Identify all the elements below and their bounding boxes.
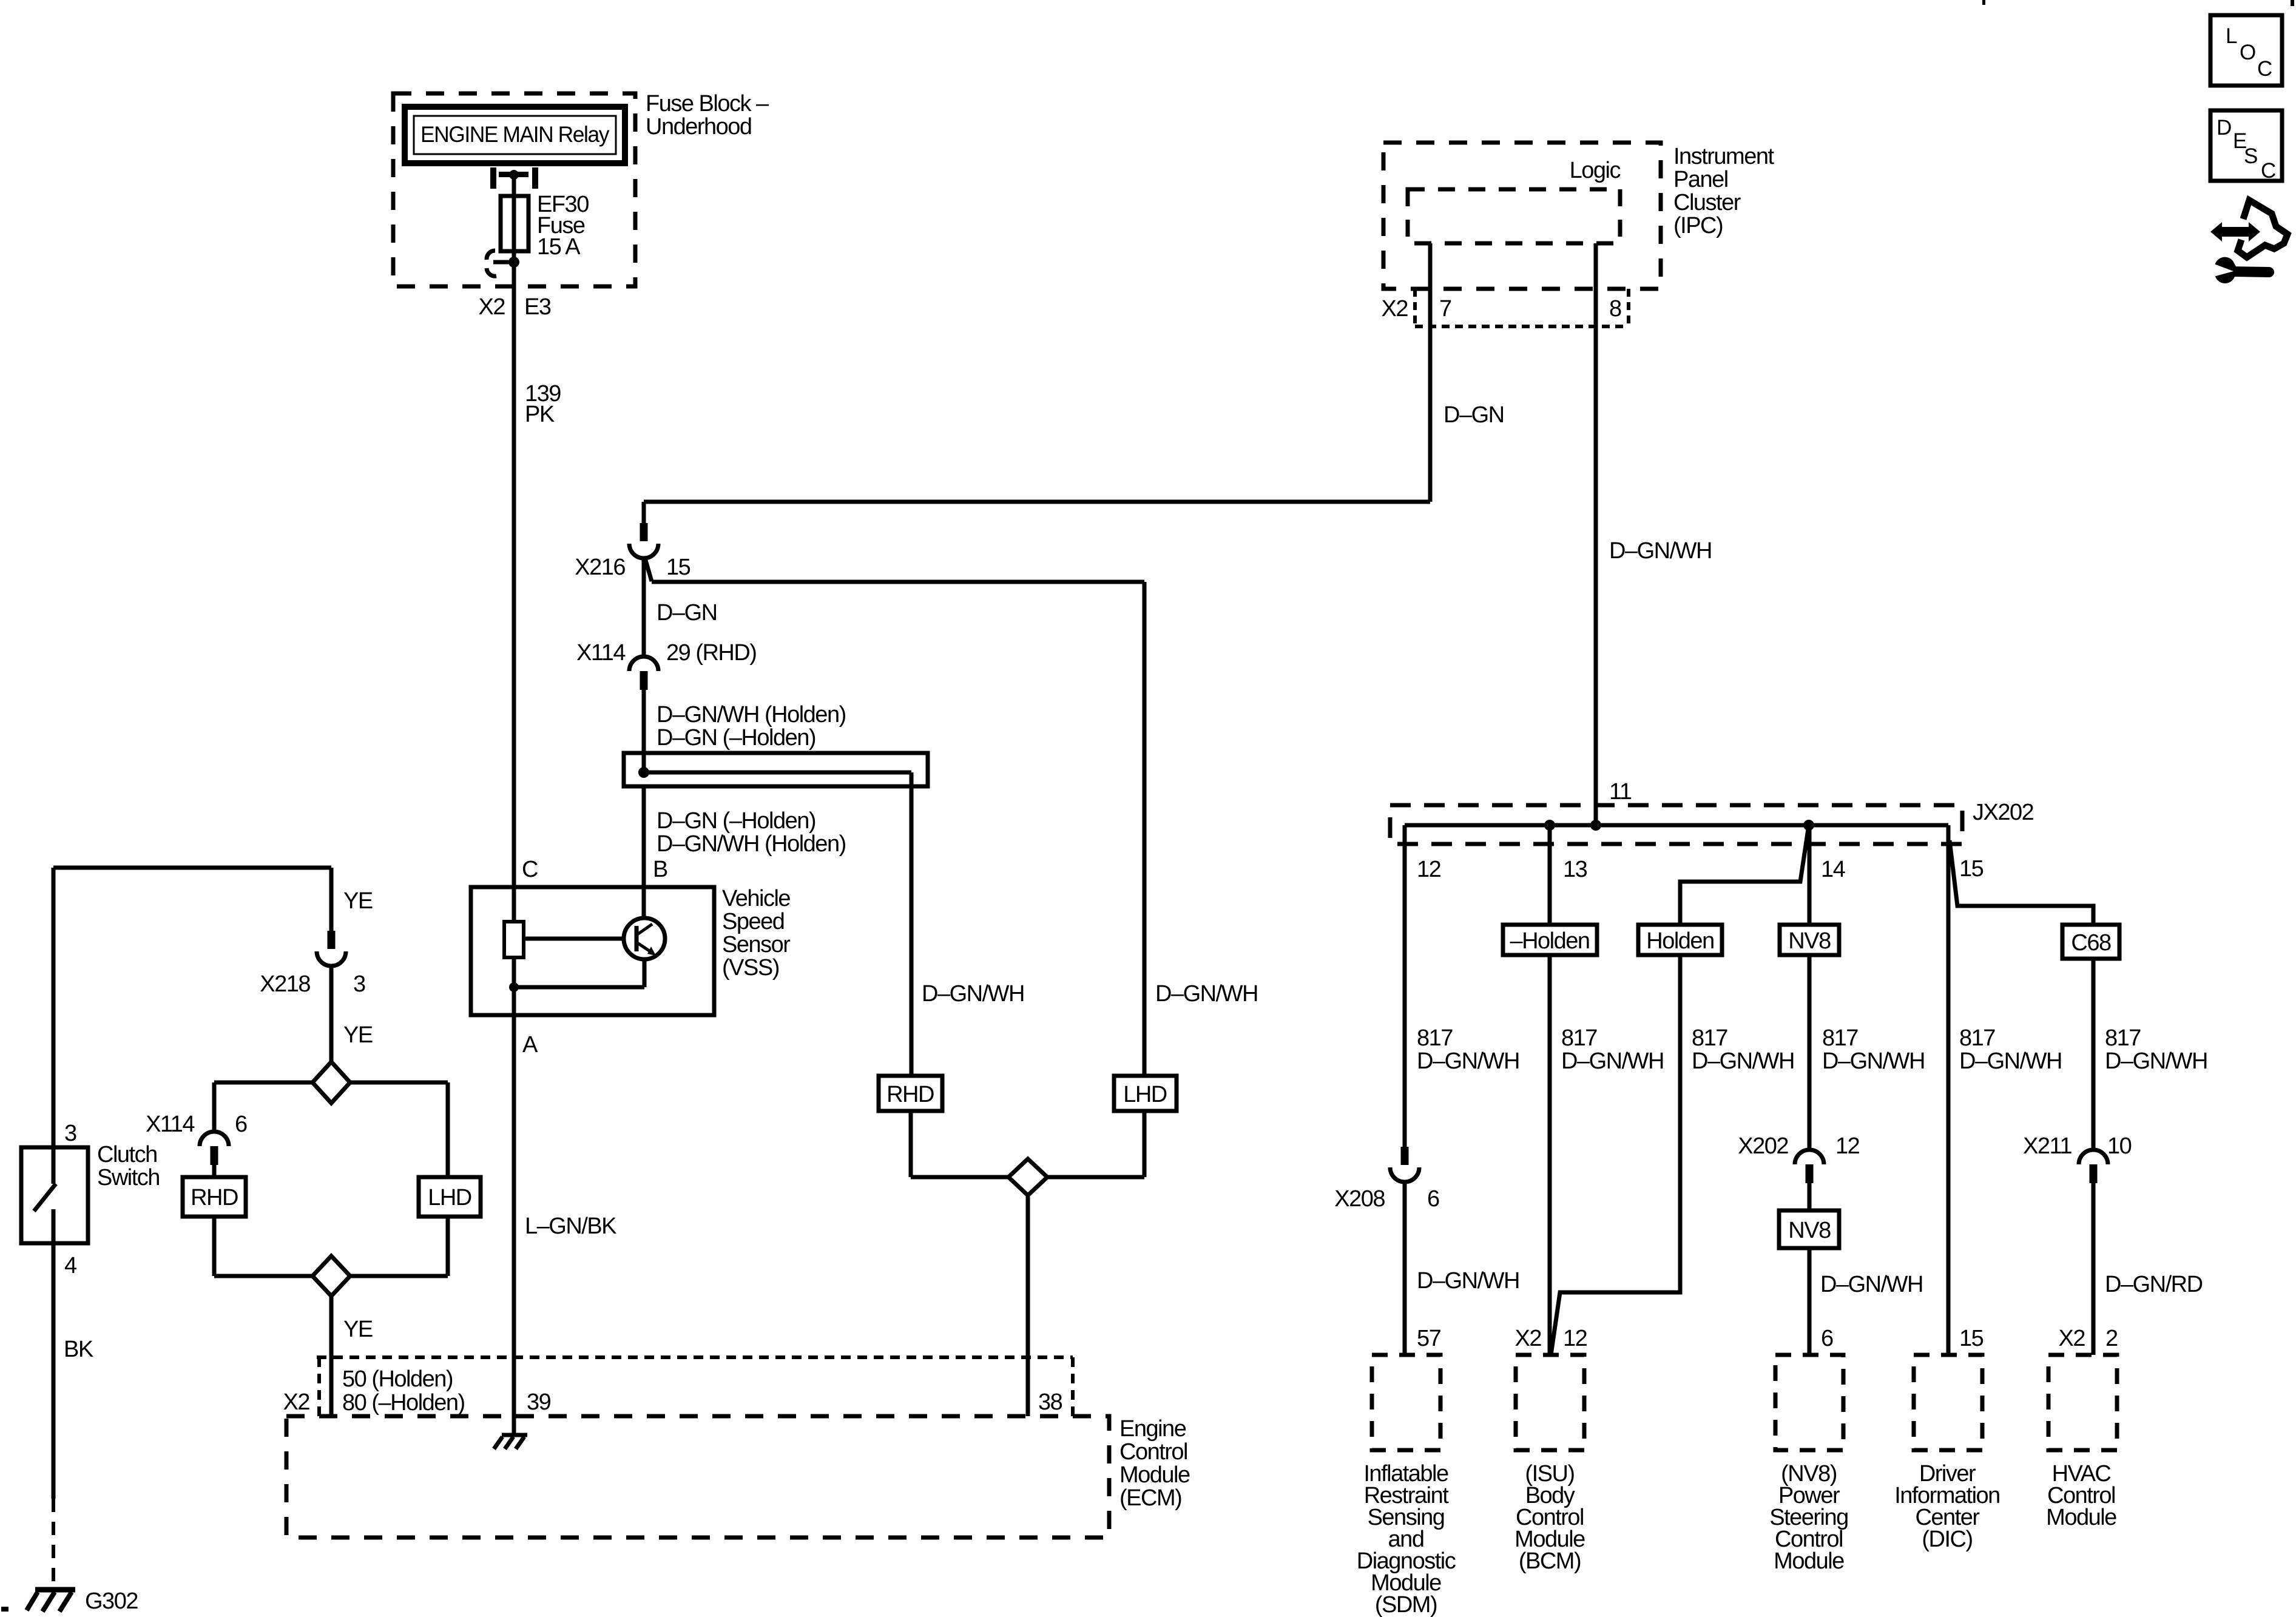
svg-text:7: 7 xyxy=(1439,296,1451,322)
svg-text:C68: C68 xyxy=(2071,930,2111,956)
svg-text:D–GN/WH: D–GN/WH xyxy=(1822,1048,1925,1074)
svg-text:Engine: Engine xyxy=(1119,1416,1186,1442)
ECM internal ground xyxy=(494,1435,527,1449)
svg-text:X2: X2 xyxy=(1382,296,1408,322)
svg-text:(BCM): (BCM) xyxy=(1519,1548,1581,1574)
wire X216 branch to LHD run xyxy=(645,558,652,581)
IPC logic dashed box xyxy=(1408,189,1620,243)
svg-text:Vehicle: Vehicle xyxy=(722,886,790,911)
svg-text:39: 39 xyxy=(527,1389,551,1415)
box LHD clutch xyxy=(419,1177,481,1217)
splice pack box xyxy=(624,753,928,786)
svg-text:12: 12 xyxy=(1835,1133,1860,1159)
svg-text:Instrument: Instrument xyxy=(1673,144,1774,169)
fuse block - underhood dashed box xyxy=(393,93,635,286)
svg-text:Speed: Speed xyxy=(722,909,784,934)
wire IPC pin 7 D-GN xyxy=(1430,243,1504,502)
svg-text:D–GN/WH: D–GN/WH xyxy=(1692,1048,1794,1074)
svg-text:D–GN: D–GN xyxy=(657,600,717,626)
svg-text:D–GN/WH: D–GN/WH xyxy=(1609,538,1712,564)
page artifact dot xyxy=(1,1607,8,1612)
svg-text:X2: X2 xyxy=(2059,1326,2085,1351)
resistor in VSS xyxy=(504,887,524,1015)
svg-text:X114: X114 xyxy=(146,1112,195,1137)
wire clutch to ground BK xyxy=(53,1243,93,1499)
node JX202 14 xyxy=(1803,820,1814,831)
svg-text:G302: G302 xyxy=(85,1588,138,1614)
svg-text:B: B xyxy=(653,857,667,882)
wire stub to X216 xyxy=(642,502,646,523)
wire JX202-14 to Holden xyxy=(1680,825,1809,925)
page artifact tick top1 xyxy=(1982,0,1985,5)
wire D-GN/WH to RHD xyxy=(922,981,1024,1007)
connector X211 pin 10 xyxy=(2023,1133,2132,1183)
connector X114 pin 29 xyxy=(576,640,756,690)
label YE upper xyxy=(343,888,373,914)
label 6 PSCM xyxy=(1821,1326,1833,1351)
svg-text:X218: X218 xyxy=(260,971,310,997)
wire X208 to SDM xyxy=(1405,1182,1519,1355)
svg-text:12: 12 xyxy=(1563,1326,1587,1351)
box NV8 upper xyxy=(1780,925,1839,955)
wire clutch top run YE xyxy=(53,868,331,1147)
svg-text:817: 817 xyxy=(1417,1025,1453,1051)
IPC connector labels X2 7 8 xyxy=(1382,296,1621,322)
label Vehicle Speed Sensor VSS xyxy=(722,886,791,981)
wire NV8 to PSCM xyxy=(1809,1248,1923,1355)
node JX202 11 xyxy=(1590,820,1601,831)
svg-text:12: 12 xyxy=(1417,857,1441,882)
svg-text:D–GN/WH: D–GN/WH xyxy=(922,981,1024,1007)
svg-text:Holden: Holden xyxy=(1646,928,1714,954)
svg-text:Switch: Switch xyxy=(97,1165,160,1190)
wire emitter to A xyxy=(514,959,644,987)
svg-text:Panel: Panel xyxy=(1673,167,1728,192)
label 817 D-GN/WH col1 xyxy=(1417,1025,1519,1074)
svg-text:D–GN/WH (Holden): D–GN/WH (Holden) xyxy=(657,831,846,857)
box -Holden xyxy=(1503,925,1597,955)
wire diamond to X114 branch xyxy=(214,1082,312,1132)
svg-text:(IPC): (IPC) xyxy=(1673,213,1723,238)
svg-text:817: 817 xyxy=(2105,1025,2141,1051)
JX202 bus xyxy=(1405,823,1948,828)
svg-text:80 (–Holden): 80 (–Holden) xyxy=(342,1390,465,1416)
ECM pin 39 label xyxy=(527,1389,551,1415)
svg-text:C: C xyxy=(2257,57,2272,81)
svg-text:3: 3 xyxy=(353,971,365,997)
label 3 clutch xyxy=(64,1121,76,1146)
wire RHD2 to lower diamond xyxy=(214,1217,312,1276)
svg-text:(SDM): (SDM) xyxy=(1375,1592,1437,1617)
svg-text:D–GN/WH: D–GN/WH xyxy=(1561,1048,1664,1074)
svg-text:L: L xyxy=(2226,24,2237,48)
svg-text:2: 2 xyxy=(2105,1326,2118,1351)
label DIC xyxy=(1894,1461,2000,1552)
engine control module ECM dashed box xyxy=(286,1416,1109,1538)
svg-text:YE: YE xyxy=(343,1317,373,1342)
connector X208 pin 6 xyxy=(1334,1147,1439,1212)
label 817 D-GN/WH col5 xyxy=(1959,1025,2062,1074)
svg-text:Module: Module xyxy=(2046,1505,2116,1530)
label HVAC xyxy=(2046,1461,2116,1530)
label Logic xyxy=(1570,158,1621,183)
wire splice to VSS B xyxy=(642,786,646,887)
svg-text:817: 817 xyxy=(1822,1025,1858,1051)
label SDM xyxy=(1357,1461,1456,1617)
label 817 D-GN/WH col4 xyxy=(1822,1025,1925,1074)
wire X218 to diamond YE xyxy=(331,966,373,1062)
label Fuse Block - Underhood xyxy=(646,91,769,140)
svg-text:L–GN/BK: L–GN/BK xyxy=(525,1214,616,1239)
icon wrench xyxy=(2213,257,2274,283)
svg-text:Module: Module xyxy=(1119,1462,1190,1488)
label Clutch Switch xyxy=(97,1142,160,1190)
wire LHD2 to lower diamond xyxy=(351,1217,448,1276)
wire -Holden to BCM xyxy=(1548,955,1552,1355)
label 817 D-GN/WH col3 xyxy=(1692,1025,1794,1074)
wire resistor to transistor xyxy=(524,937,624,941)
ECM pin 38 label xyxy=(1038,1389,1062,1415)
svg-text:C: C xyxy=(522,857,538,882)
svg-text:D: D xyxy=(2217,116,2231,140)
svg-text:D–GN/WH: D–GN/WH xyxy=(1959,1048,2062,1074)
svg-text:JX202: JX202 xyxy=(1973,800,2034,825)
label 817 D-GN/WH col6 xyxy=(2105,1025,2207,1074)
svg-text:S: S xyxy=(2244,144,2257,168)
icon LOC xyxy=(2210,15,2282,86)
connector X216 pin 15 xyxy=(575,523,690,580)
svg-text:D–GN/RD: D–GN/RD xyxy=(2105,1272,2203,1297)
HVAC dashed box xyxy=(2048,1355,2117,1450)
svg-text:D–GN/WH: D–GN/WH xyxy=(1820,1272,1923,1297)
svg-text:15: 15 xyxy=(1959,856,1984,882)
svg-text:D–GN (–Holden): D–GN (–Holden) xyxy=(657,808,815,834)
svg-text:BK: BK xyxy=(64,1337,93,1362)
svg-text:RHD: RHD xyxy=(191,1185,238,1210)
wire LHD branch down xyxy=(1144,582,1258,1076)
box Holden xyxy=(1638,925,1722,955)
label D-GN (-Holden) D-GN/WH (Holden) xyxy=(657,808,846,857)
wire JX202-13 to -Holden xyxy=(1548,825,1552,925)
wire C68 to X211 xyxy=(2092,959,2096,1150)
fuse EF30 15 A xyxy=(501,192,589,262)
svg-text:D–GN/WH: D–GN/WH xyxy=(1155,981,1258,1007)
wire X114 to splice xyxy=(642,690,646,772)
vehicle speed sensor VSS box xyxy=(471,887,714,1015)
connector X218 pin 3 xyxy=(260,931,365,997)
node VSS A junction xyxy=(509,982,519,992)
wire JX202-15 branch to C68 xyxy=(1950,840,2093,925)
svg-text:LHD: LHD xyxy=(1123,1082,1167,1107)
svg-text:Clutch: Clutch xyxy=(97,1142,157,1167)
PSCM dashed box xyxy=(1775,1355,1843,1450)
wire diamond to ECM 50/80 YE xyxy=(331,1296,373,1416)
svg-text:57: 57 xyxy=(1417,1326,1441,1351)
svg-text:6: 6 xyxy=(235,1112,247,1137)
svg-text:D–GN (–Holden): D–GN (–Holden) xyxy=(657,725,815,751)
svg-text:PK: PK xyxy=(525,402,555,427)
label Engine Control Module ECM xyxy=(1119,1416,1190,1511)
ground G302 xyxy=(27,1588,138,1614)
node splice xyxy=(638,767,649,778)
box RHD clutch xyxy=(183,1177,246,1217)
ECM pin labels X2 50 80 xyxy=(283,1366,465,1416)
SDM dashed box xyxy=(1372,1355,1440,1450)
clutch switch blade xyxy=(34,1147,56,1243)
svg-text:(ECM): (ECM) xyxy=(1119,1485,1181,1511)
svg-text:O: O xyxy=(2240,41,2255,64)
svg-text:Module: Module xyxy=(1774,1548,1844,1574)
svg-text:11: 11 xyxy=(1609,779,1632,805)
svg-text:(VSS): (VSS) xyxy=(722,955,779,981)
svg-text:4: 4 xyxy=(64,1253,77,1278)
wire JX202-14 to NV8 xyxy=(1808,825,1812,925)
label 4 clutch xyxy=(64,1253,77,1278)
svg-text:Fuse Block –: Fuse Block – xyxy=(646,91,769,116)
label 57 xyxy=(1417,1326,1441,1351)
wire LHD to splice diamond xyxy=(1047,1111,1144,1177)
svg-text:X2: X2 xyxy=(1515,1326,1542,1351)
splice diamond clutch upper xyxy=(312,1062,350,1103)
svg-text:X2: X2 xyxy=(479,294,505,320)
svg-text:29 (RHD): 29 (RHD) xyxy=(666,640,756,666)
clutch switch box xyxy=(21,1147,88,1243)
label JX202 xyxy=(1973,800,2034,825)
wire X114 to RHD2 xyxy=(212,1165,217,1177)
wire X202 to NV8 lower xyxy=(1808,1183,1812,1210)
svg-text:ENGINE MAIN Relay: ENGINE MAIN Relay xyxy=(420,122,610,147)
svg-text:X208: X208 xyxy=(1334,1186,1385,1212)
svg-text:Underhood: Underhood xyxy=(646,114,752,140)
svg-text:E3: E3 xyxy=(524,294,551,320)
wire 139 PK xyxy=(514,262,561,887)
transistor Q in VSS xyxy=(624,918,665,959)
relay K ENGINE MAIN Relay xyxy=(405,107,625,163)
svg-text:Logic: Logic xyxy=(1570,158,1621,183)
svg-text:15 A: 15 A xyxy=(537,234,581,260)
box NV8 lower xyxy=(1779,1210,1839,1248)
connector X2 pin E3 labels xyxy=(479,294,551,320)
wire dashed to G302 xyxy=(52,1499,55,1585)
label Instrument Panel Cluster IPC xyxy=(1673,144,1774,238)
node fuse output xyxy=(508,257,519,268)
splice bus xyxy=(644,771,911,775)
svg-text:LHD: LHD xyxy=(428,1185,471,1210)
svg-text:3: 3 xyxy=(64,1121,76,1146)
svg-text:6: 6 xyxy=(1427,1186,1439,1212)
splice diamond clutch lower xyxy=(312,1256,350,1296)
svg-text:X216: X216 xyxy=(575,555,625,580)
BCM dashed box xyxy=(1516,1355,1584,1450)
wire B into VSS xyxy=(642,887,646,918)
label PSCM xyxy=(1769,1461,1848,1574)
svg-text:Sensor: Sensor xyxy=(722,932,791,957)
svg-text:D–GN/WH: D–GN/WH xyxy=(1417,1048,1519,1074)
wire horizontal to LHD branch xyxy=(652,580,1144,584)
connector X202 pin 12 xyxy=(1738,1133,1859,1183)
wire diamond to LHD2 xyxy=(351,1082,448,1177)
svg-text:817: 817 xyxy=(1692,1025,1727,1051)
svg-text:D–GN/WH: D–GN/WH xyxy=(1417,1268,1519,1294)
wire 11 label xyxy=(1609,779,1632,805)
svg-text:15: 15 xyxy=(1959,1326,1984,1351)
ECM connector strip xyxy=(317,1357,1073,1416)
svg-text:YE: YE xyxy=(343,888,373,914)
wire horizontal IPC7 to X216 xyxy=(644,500,1430,504)
wire splice to RHD box xyxy=(910,772,914,1076)
wire L-GN/BK VSS A to ECM 39 xyxy=(514,1015,616,1435)
box RHD xyxy=(879,1076,942,1111)
wire IPC pin 8 D-GN/WH xyxy=(1596,243,1712,825)
IPC X2 connector strip xyxy=(1415,289,1629,326)
svg-text:D–GN: D–GN xyxy=(1443,402,1504,428)
label X2 12 BCM xyxy=(1515,1326,1587,1351)
splice diamond RHD/LHD xyxy=(1008,1159,1047,1195)
label D-GN/WH (Holden) D-GN (-Holden) xyxy=(657,702,846,751)
label 15 DIC xyxy=(1959,1326,1984,1351)
label BCM xyxy=(1514,1461,1585,1574)
svg-text:D–GN/WH: D–GN/WH xyxy=(2105,1048,2207,1074)
page artifact tick top2 xyxy=(2291,0,2294,6)
JX202 pin labels xyxy=(1417,856,1984,882)
svg-text:50 (Holden): 50 (Holden) xyxy=(342,1366,453,1392)
wire D-GN to X114 xyxy=(644,558,717,657)
node JX202 13 xyxy=(1544,820,1555,831)
junction block JX202 dashed box xyxy=(1390,805,1962,844)
label X2 2 HVAC xyxy=(2059,1326,2118,1351)
wire diamond to ECM 38 xyxy=(1026,1195,1030,1416)
DIC dashed box xyxy=(1914,1355,1982,1450)
svg-text:NV8: NV8 xyxy=(1788,928,1831,954)
icon arrows xyxy=(2210,222,2260,241)
instrument panel cluster IPC dashed box xyxy=(1383,143,1661,289)
svg-text:YE: YE xyxy=(343,1022,373,1048)
icon hand outline xyxy=(2238,200,2288,257)
box LHD xyxy=(1114,1076,1177,1111)
svg-text:A: A xyxy=(522,1032,538,1058)
svg-text:X114: X114 xyxy=(576,640,626,666)
svg-text:X211: X211 xyxy=(2023,1133,2071,1159)
svg-text:RHD: RHD xyxy=(886,1082,934,1107)
wire JX202-12 to X208 xyxy=(1403,825,1407,1147)
relay contact terminal xyxy=(490,167,538,189)
svg-text:817: 817 xyxy=(1561,1025,1597,1051)
connector X114 pin 6 xyxy=(146,1112,247,1165)
label 817 D-GN/WH col2 xyxy=(1561,1025,1664,1074)
svg-text:D–GN/WH (Holden): D–GN/WH (Holden) xyxy=(657,702,846,727)
svg-text:Cluster: Cluster xyxy=(1673,190,1741,215)
fuse block internal bus hook xyxy=(487,251,514,276)
svg-text:(DIC): (DIC) xyxy=(1922,1527,1972,1552)
svg-text:C: C xyxy=(2261,159,2275,183)
wire X211 to HVAC xyxy=(2093,1183,2203,1355)
svg-text:15: 15 xyxy=(666,555,690,580)
svg-text:38: 38 xyxy=(1038,1389,1062,1415)
svg-text:14: 14 xyxy=(1821,857,1846,882)
svg-text:X202: X202 xyxy=(1738,1133,1788,1159)
VSS pin labels C B A xyxy=(522,857,667,1058)
icon DESC xyxy=(2210,110,2282,183)
svg-text:8: 8 xyxy=(1609,296,1621,322)
wire NV8 to X202 xyxy=(1808,955,1812,1150)
svg-text:6: 6 xyxy=(1821,1326,1833,1351)
svg-text:13: 13 xyxy=(1563,857,1587,882)
svg-text:10: 10 xyxy=(2107,1133,2132,1159)
box C68 xyxy=(2062,925,2119,959)
wire relay to fuse xyxy=(512,175,516,196)
svg-text:–Holden: –Holden xyxy=(1510,928,1589,954)
svg-text:Control: Control xyxy=(1119,1439,1187,1465)
wire Holden join BCM xyxy=(1551,955,1680,1355)
svg-text:817: 817 xyxy=(1959,1025,1995,1051)
svg-text:X2: X2 xyxy=(283,1389,310,1415)
svg-text:NV8: NV8 xyxy=(1788,1218,1831,1243)
wire RHD to splice diamond xyxy=(911,1111,1008,1177)
wire JX202-15 to DIC xyxy=(1947,825,1951,1355)
